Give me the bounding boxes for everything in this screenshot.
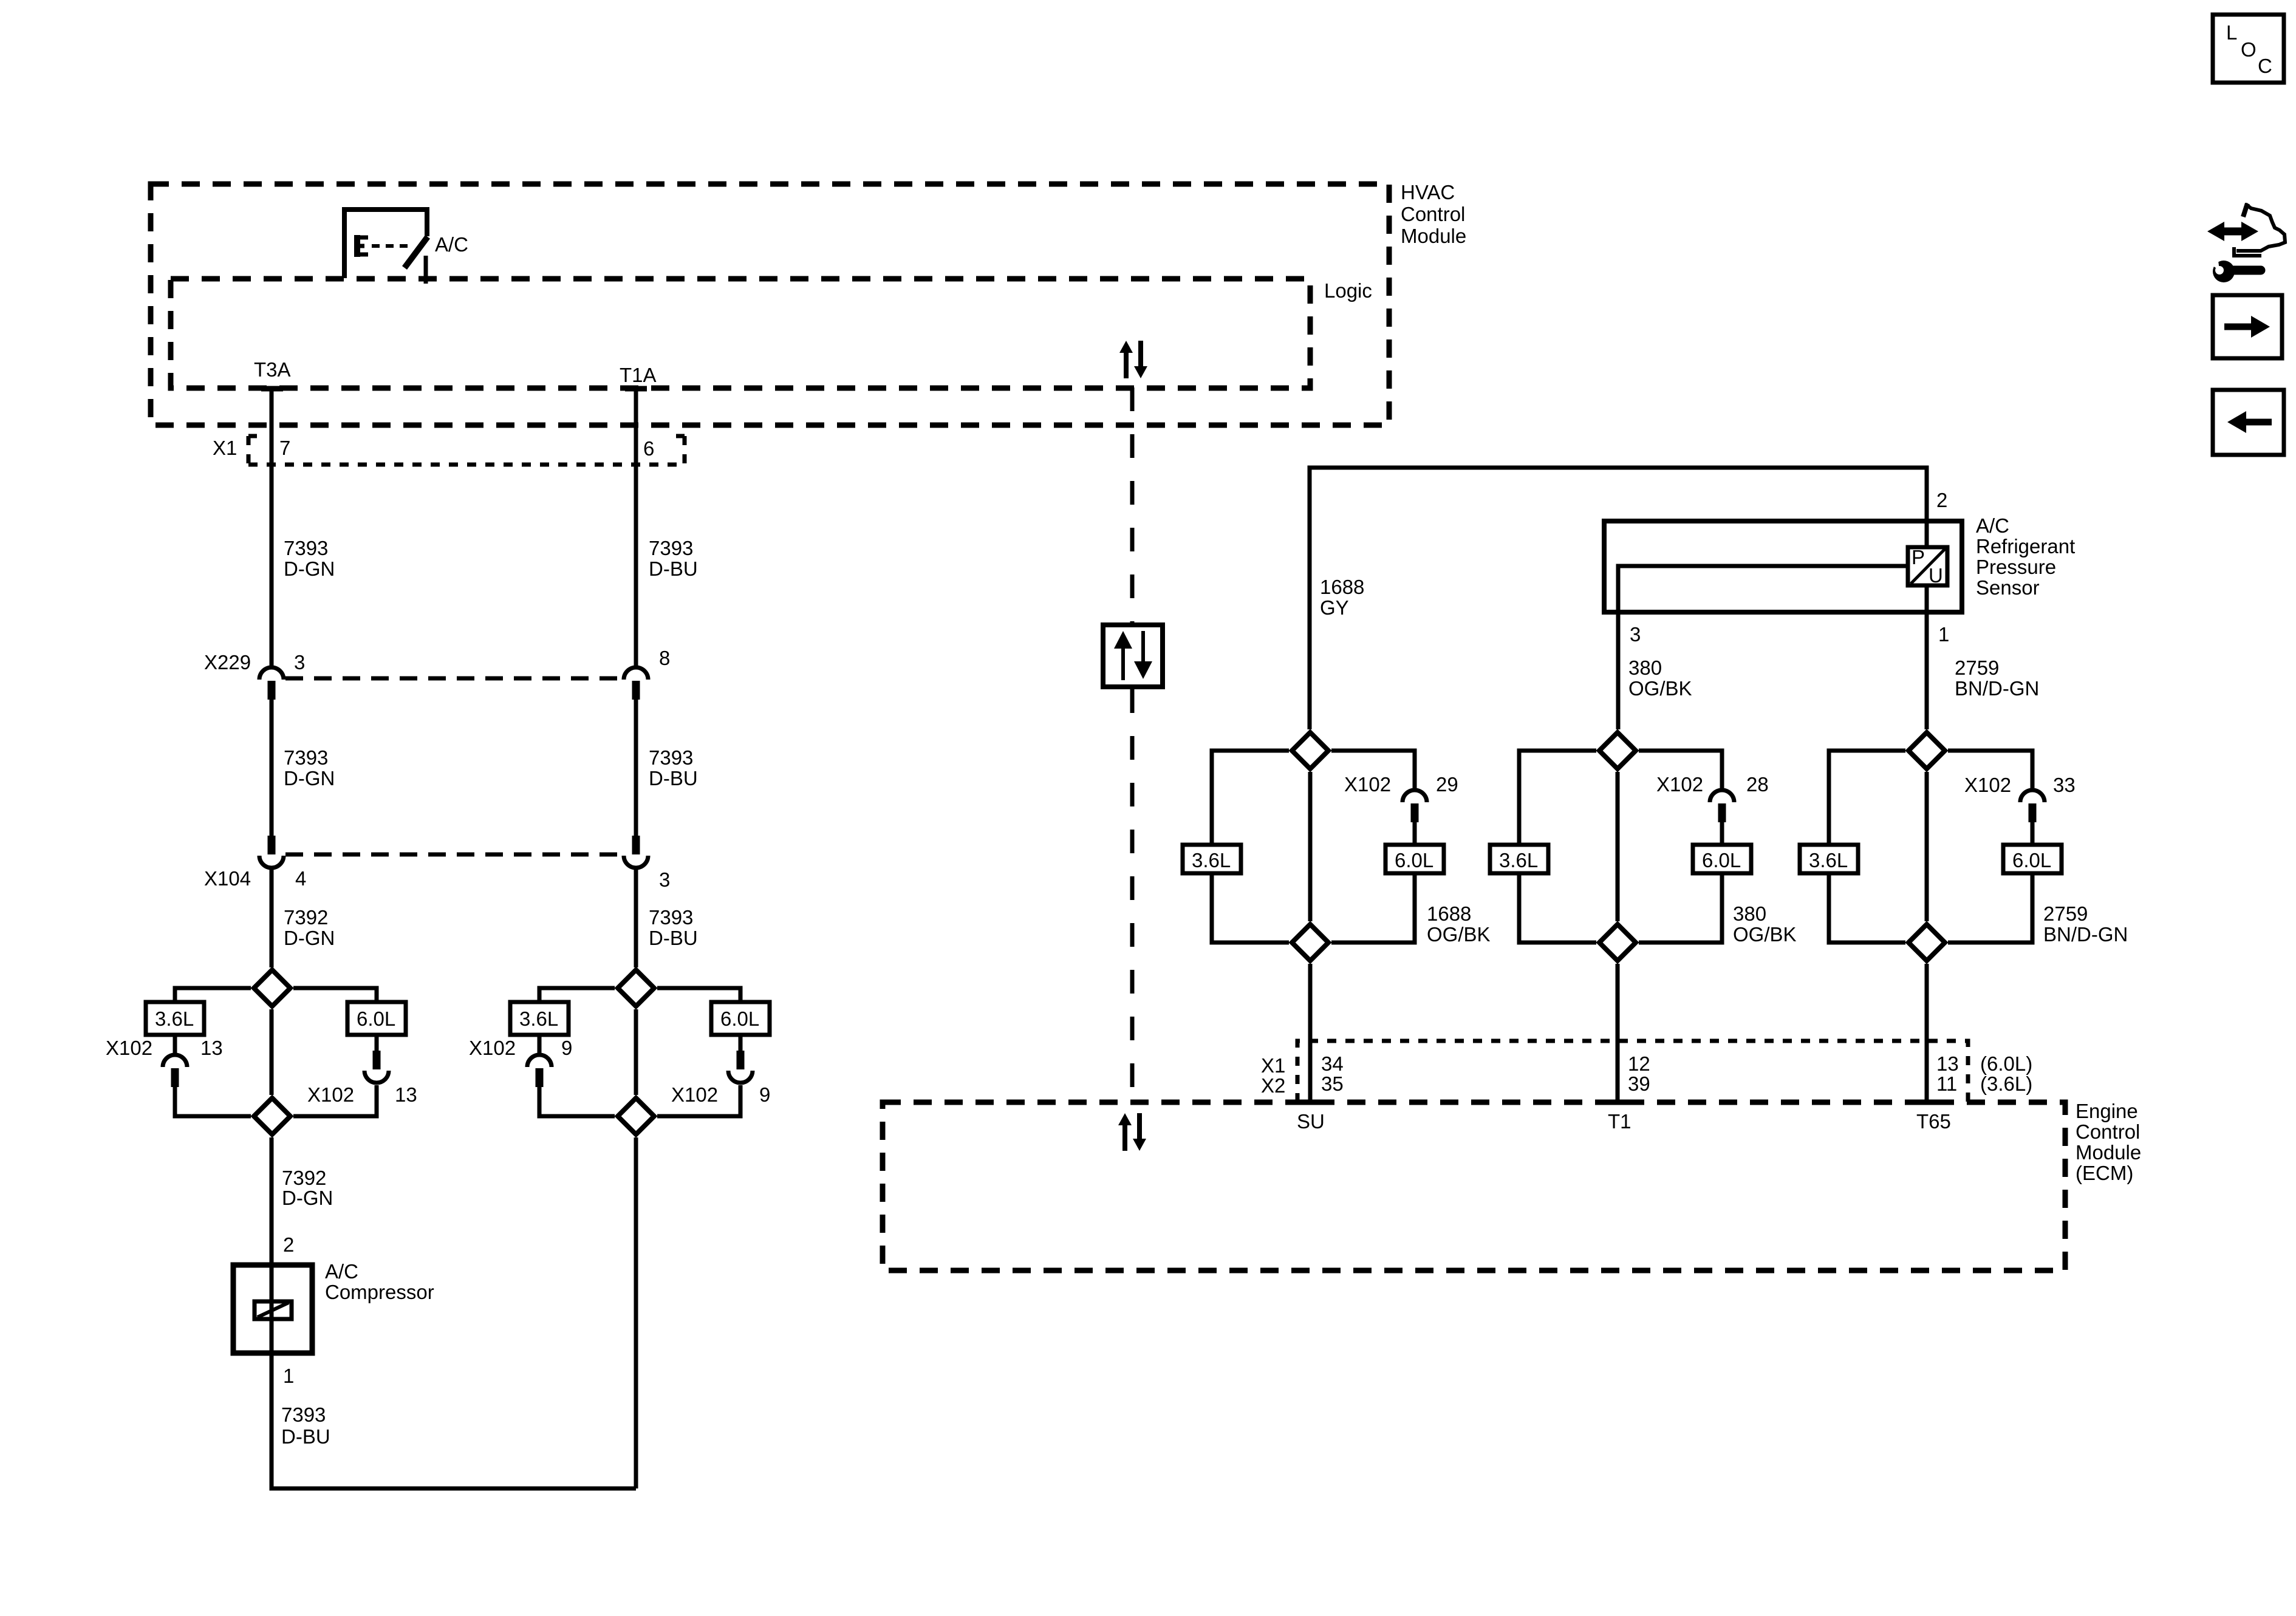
svg-text:Logic: Logic — [1324, 279, 1372, 302]
svg-text:T1A: T1A — [620, 364, 657, 386]
svg-text:SU: SU — [1297, 1110, 1325, 1133]
svg-text:6.0L: 6.0L — [1395, 849, 1433, 871]
svg-text:3.6L: 3.6L — [1499, 849, 1538, 871]
svg-text:D-GN: D-GN — [284, 927, 335, 949]
svg-text:380: 380 — [1733, 902, 1766, 925]
svg-text:T1: T1 — [1608, 1110, 1631, 1133]
svg-text:T65: T65 — [1916, 1110, 1951, 1133]
svg-text:13: 13 — [200, 1037, 223, 1059]
svg-text:1: 1 — [1938, 623, 1949, 646]
svg-text:A/C: A/C — [1976, 514, 2009, 537]
svg-text:Refrigerant: Refrigerant — [1976, 535, 2075, 557]
svg-text:3.6L: 3.6L — [519, 1007, 558, 1030]
svg-text:8: 8 — [659, 647, 670, 669]
svg-text:D-BU: D-BU — [649, 767, 698, 789]
svg-text:7393: 7393 — [281, 1403, 326, 1426]
svg-text:35: 35 — [1321, 1072, 1344, 1095]
svg-text:7392: 7392 — [282, 1167, 326, 1189]
svg-text:X102: X102 — [1344, 773, 1391, 796]
svg-text:BN/D-GN: BN/D-GN — [1955, 677, 2039, 700]
svg-text:Control: Control — [1401, 203, 1465, 225]
svg-text:Sensor: Sensor — [1976, 576, 2040, 599]
svg-text:X102: X102 — [106, 1037, 152, 1059]
svg-text:Module: Module — [1401, 225, 1466, 247]
svg-text:1: 1 — [283, 1365, 294, 1387]
svg-text:O: O — [2241, 38, 2257, 61]
svg-text:D-GN: D-GN — [284, 767, 335, 789]
svg-text:X102: X102 — [1964, 774, 2011, 796]
svg-text:11: 11 — [1936, 1072, 1957, 1095]
svg-text:7392: 7392 — [284, 906, 328, 929]
svg-text:D-GN: D-GN — [282, 1187, 333, 1209]
svg-text:7393: 7393 — [649, 537, 693, 559]
svg-text:X102: X102 — [671, 1083, 718, 1106]
svg-text:2: 2 — [1936, 489, 1947, 511]
svg-text:OG/BK: OG/BK — [1427, 923, 1491, 946]
svg-text:Pressure: Pressure — [1976, 556, 2056, 578]
svg-text:9: 9 — [759, 1083, 770, 1106]
svg-text:T3A: T3A — [254, 358, 291, 381]
svg-text:OG/BK: OG/BK — [1628, 677, 1692, 700]
svg-text:7: 7 — [279, 437, 290, 459]
svg-text:28: 28 — [1746, 773, 1769, 796]
svg-text:2: 2 — [283, 1233, 294, 1256]
svg-text:1688: 1688 — [1427, 902, 1471, 925]
svg-text:Engine: Engine — [2076, 1100, 2138, 1122]
svg-text:BN/D-GN: BN/D-GN — [2043, 923, 2128, 946]
svg-text:12: 12 — [1628, 1052, 1650, 1075]
svg-text:A/C: A/C — [435, 233, 468, 256]
svg-text:34: 34 — [1321, 1052, 1344, 1075]
svg-text:HVAC: HVAC — [1401, 181, 1455, 203]
svg-text:33: 33 — [2053, 774, 2076, 796]
svg-text:13: 13 — [1936, 1052, 1959, 1075]
svg-text:3.6L: 3.6L — [1192, 849, 1231, 871]
svg-text:GY: GY — [1320, 596, 1349, 619]
svg-text:3: 3 — [659, 868, 670, 891]
svg-text:2759: 2759 — [2043, 902, 2088, 925]
svg-text:6.0L: 6.0L — [720, 1007, 759, 1030]
svg-text:7393: 7393 — [649, 746, 693, 769]
svg-text:9: 9 — [561, 1037, 572, 1059]
svg-text:6.0L: 6.0L — [357, 1007, 395, 1030]
svg-text:D-BU: D-BU — [281, 1425, 330, 1448]
svg-text:2759: 2759 — [1955, 656, 1999, 679]
svg-text:4: 4 — [295, 867, 306, 890]
svg-text:6.0L: 6.0L — [2012, 849, 2051, 871]
svg-text:3.6L: 3.6L — [1809, 849, 1848, 871]
svg-text:X1: X1 — [1261, 1054, 1285, 1077]
svg-text:X102: X102 — [307, 1083, 354, 1106]
svg-text:X102: X102 — [1656, 773, 1703, 796]
svg-text:C: C — [2258, 55, 2272, 77]
svg-text:1688: 1688 — [1320, 576, 1364, 598]
svg-text:3: 3 — [294, 651, 305, 673]
svg-text:(6.0L): (6.0L) — [1980, 1052, 2032, 1075]
svg-text:Compressor: Compressor — [325, 1281, 434, 1303]
svg-text:6.0L: 6.0L — [1702, 849, 1741, 871]
svg-text:D-GN: D-GN — [284, 557, 335, 580]
svg-text:7393: 7393 — [649, 906, 693, 929]
svg-text:A/C: A/C — [325, 1260, 358, 1283]
svg-text:39: 39 — [1628, 1072, 1650, 1095]
svg-text:U: U — [1929, 564, 1943, 587]
svg-text:13: 13 — [395, 1083, 417, 1106]
svg-text:P: P — [1912, 546, 1925, 568]
svg-text:380: 380 — [1628, 656, 1662, 679]
svg-text:(ECM): (ECM) — [2076, 1162, 2133, 1184]
svg-text:X1: X1 — [213, 437, 237, 459]
svg-text:7393: 7393 — [284, 537, 328, 559]
svg-text:29: 29 — [1436, 773, 1458, 796]
svg-text:3.6L: 3.6L — [155, 1007, 194, 1030]
svg-text:D-BU: D-BU — [649, 927, 698, 949]
svg-text:D-BU: D-BU — [649, 557, 698, 580]
svg-text:Control: Control — [2076, 1120, 2140, 1143]
svg-text:3: 3 — [1630, 623, 1641, 646]
svg-text:L: L — [2226, 21, 2237, 44]
svg-text:Module: Module — [2076, 1141, 2141, 1164]
svg-text:7393: 7393 — [284, 746, 328, 769]
svg-text:OG/BK: OG/BK — [1733, 923, 1797, 946]
svg-text:X102: X102 — [469, 1037, 516, 1059]
svg-text:(3.6L): (3.6L) — [1980, 1072, 2032, 1095]
svg-text:X104: X104 — [204, 867, 251, 890]
svg-text:6: 6 — [643, 437, 654, 460]
svg-text:X229: X229 — [204, 651, 251, 673]
svg-text:X2: X2 — [1261, 1074, 1285, 1097]
